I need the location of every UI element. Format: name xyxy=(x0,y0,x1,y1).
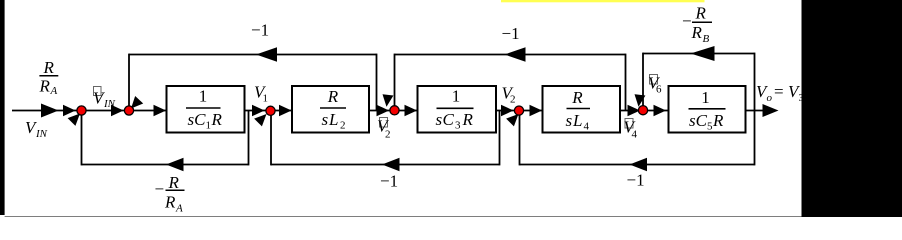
svg-text:IN: IN xyxy=(103,98,116,110)
svg-text:C: C xyxy=(443,110,455,129)
summing junction J1 xyxy=(77,106,86,115)
arrowhead left BL1 xyxy=(166,158,184,172)
wire: vertical TL1 right tap down to main line xyxy=(376,54,378,111)
label Vhat-IN node xyxy=(93,87,116,111)
svg-text:4: 4 xyxy=(584,121,590,133)
arrowhead into U1 xyxy=(154,105,167,117)
svg-text:R: R xyxy=(43,58,55,77)
label Vo = V3 output xyxy=(756,82,805,104)
label Vhat4 node xyxy=(624,118,638,141)
svg-text:R: R xyxy=(695,4,707,23)
arrowhead into U4 xyxy=(530,105,543,117)
summing junction J6 xyxy=(638,106,647,115)
wire: B2 to B3 xyxy=(369,110,418,112)
wire: vertical J1 down to BL1 xyxy=(81,111,83,166)
label fraction R/RA at input xyxy=(39,58,59,97)
svg-text:−1: −1 xyxy=(380,172,398,191)
svg-text:sC: sC xyxy=(188,110,207,129)
value label R/(sL2) inside U2 xyxy=(320,87,346,132)
svg-text:6: 6 xyxy=(656,84,662,96)
svg-text:−: − xyxy=(682,12,692,31)
svg-text:−1: −1 xyxy=(502,24,520,43)
arrowhead input large xyxy=(41,104,59,118)
arrowhead into U2 xyxy=(279,105,292,117)
label Vhat6 node xyxy=(648,74,662,96)
block U1 1/(sC1R) xyxy=(167,86,245,133)
svg-text:o: o xyxy=(767,92,773,104)
arrowhead up into J3 xyxy=(254,110,270,126)
wire: vertical TL1 left down to J2 xyxy=(128,54,130,111)
wire: top feedback line 2 horizontal xyxy=(395,54,626,56)
block U3 1/(sC3R) xyxy=(418,86,497,133)
label V1 node xyxy=(254,83,268,105)
svg-text:A: A xyxy=(50,85,58,97)
wire: vertical Vo tap from TL3 through main to BL3 xyxy=(754,53,756,166)
block U5 1/(sC5R) xyxy=(669,86,746,133)
arrowhead into U5 xyxy=(654,105,667,117)
value label R/(sL4) inside U4 xyxy=(566,88,591,133)
block U2 R/(sL2) xyxy=(292,86,369,133)
wire: output segment xyxy=(746,110,771,112)
summing junction J2 xyxy=(124,106,133,115)
arrowhead into U3 xyxy=(405,105,418,117)
svg-text:R: R xyxy=(691,23,703,42)
arrowhead up into J5 xyxy=(506,110,522,126)
svg-text:R: R xyxy=(39,77,51,96)
arrowhead into J1 xyxy=(63,105,76,117)
value label 1/(sC5R) inside U5 xyxy=(689,88,726,133)
svg-text:R: R xyxy=(327,87,339,106)
wire: vertical BL3 left up to J5 xyxy=(519,111,521,166)
svg-text:R: R xyxy=(211,110,223,129)
wire: vertical V2 tap down to BL2 right end xyxy=(499,111,501,166)
svg-text:3: 3 xyxy=(799,92,805,104)
svg-text:1: 1 xyxy=(206,120,212,132)
label V2 node xyxy=(502,84,516,106)
svg-text:R: R xyxy=(462,110,474,129)
wire: vertical TL2 right tap down to main line xyxy=(625,54,627,111)
wire: vertical BL2 left up to J3 xyxy=(270,111,272,166)
summing junction J4 xyxy=(390,106,399,115)
yellow highlight sliver at top xyxy=(501,0,705,2)
block U4 R/(sL4) xyxy=(543,86,621,133)
wire: vertical V1 tap down to BL1 right end xyxy=(248,111,250,166)
label fraction -R/RA on BL1 xyxy=(155,173,185,215)
arrowhead output xyxy=(763,104,779,117)
arrowhead left TL1 xyxy=(256,47,277,61)
svg-text:s: s xyxy=(322,110,329,129)
arrowhead left TL3 xyxy=(691,46,715,61)
svg-text:−1: −1 xyxy=(627,171,645,190)
left black page-edge strip xyxy=(0,0,5,215)
svg-text:2: 2 xyxy=(510,94,516,106)
svg-text:−1: −1 xyxy=(251,21,269,40)
svg-text:R: R xyxy=(164,193,176,212)
svg-text:1: 1 xyxy=(199,87,208,106)
wire: top feedback line 3 horizontal (R/RB) xyxy=(643,53,755,55)
svg-text:2: 2 xyxy=(385,129,391,141)
svg-text:L: L xyxy=(572,111,582,130)
svg-text:s: s xyxy=(566,111,573,130)
value label 1/(sC1R) inside U1 xyxy=(186,87,223,132)
arrowhead left TL2 xyxy=(505,47,526,61)
svg-text:sC: sC xyxy=(689,111,708,130)
arrowhead down into J2 xyxy=(127,96,143,112)
svg-text:L: L xyxy=(328,110,338,129)
right black page background region xyxy=(802,0,902,217)
wire: vertical TL3 left down to J6 xyxy=(642,53,644,111)
arrowhead left BL2 xyxy=(382,158,400,172)
summing junction J3 xyxy=(266,106,275,115)
label Vhat2 node xyxy=(377,117,391,141)
svg-text:1: 1 xyxy=(263,93,269,105)
svg-text:B: B xyxy=(703,33,710,45)
svg-text:s: s xyxy=(436,110,443,129)
arrowhead into J6 xyxy=(628,105,641,117)
wire: bottom feedback line 2 horizontal xyxy=(271,164,500,166)
wire: B3 to B4 xyxy=(496,110,543,112)
bottom faint hairline xyxy=(5,216,802,217)
svg-text:A: A xyxy=(175,203,183,215)
wire: top feedback line 1 horizontal xyxy=(129,54,377,56)
svg-text:−: − xyxy=(155,180,165,199)
wire: input segment to block B1 xyxy=(12,110,167,112)
label fraction -R/RB on TL3 xyxy=(682,4,712,45)
svg-text:1: 1 xyxy=(701,88,710,107)
arrowhead into J2 xyxy=(111,105,124,117)
label VIN xyxy=(25,118,48,140)
svg-text:2: 2 xyxy=(340,120,346,132)
svg-text:3: 3 xyxy=(455,120,461,132)
wire: vertical TL2 left down to J4 xyxy=(394,54,396,111)
arrowhead up into J1 xyxy=(68,110,84,126)
svg-text:R: R xyxy=(712,111,724,130)
svg-text:=: = xyxy=(774,82,784,101)
wire: B1 to B2 xyxy=(245,110,293,112)
arrowhead left BL3 xyxy=(630,158,648,172)
svg-text:IN: IN xyxy=(35,128,48,140)
svg-text:1: 1 xyxy=(452,87,461,106)
svg-text:R: R xyxy=(571,88,583,107)
svg-text:R: R xyxy=(168,173,180,192)
arrowhead down into J6 xyxy=(633,94,645,107)
arrowhead into J4 xyxy=(377,105,390,117)
wire: bottom feedback line 3 horizontal xyxy=(520,164,755,166)
wire: bottom feedback line 1 horizontal xyxy=(82,164,249,166)
value label 1/(sC3R) inside U3 xyxy=(436,87,474,132)
wire: B4 to B5 xyxy=(620,110,669,112)
arrowhead into J5 xyxy=(501,105,514,117)
svg-text:4: 4 xyxy=(632,129,638,141)
summing junction J5 xyxy=(514,106,523,115)
arrowhead down into J4 xyxy=(381,94,393,107)
arrowhead into J3 xyxy=(252,105,265,117)
